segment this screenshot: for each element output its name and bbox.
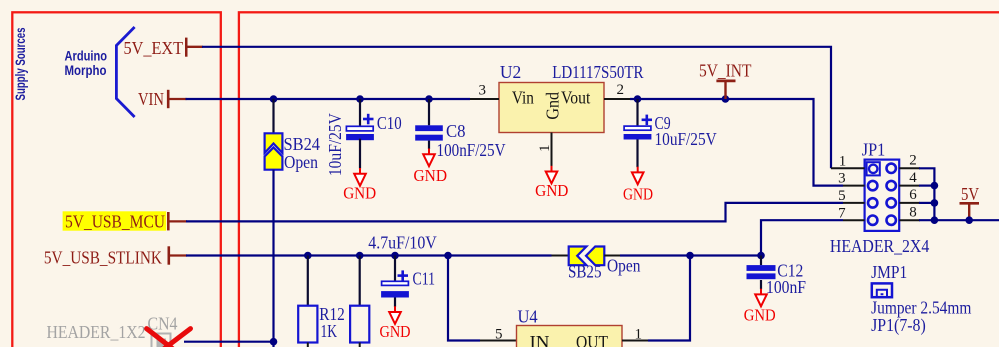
node R12 <box>304 252 312 260</box>
jumper JMP1 note <box>871 262 972 335</box>
ground U2 <box>535 166 568 200</box>
pin 5 U4 <box>480 327 517 343</box>
svg-text:C8: C8 <box>446 121 466 141</box>
pin 7 JP1 <box>838 205 865 221</box>
no-fit cross CN4 <box>144 329 193 347</box>
wire 5V_EXT rail <box>202 47 831 169</box>
node bus pin8 <box>931 216 939 224</box>
svg-text:LD1117S50TR: LD1117S50TR <box>552 62 644 82</box>
node VIN/C8 <box>425 95 433 103</box>
pin 6 JP1 <box>899 187 920 203</box>
sheet border main box <box>239 12 999 347</box>
svg-text:JP1: JP1 <box>862 140 886 160</box>
node CN4 junction <box>270 338 278 346</box>
node bus pin4 <box>931 182 939 190</box>
pin 1 JP1 <box>831 153 865 169</box>
node VIN/C10 <box>356 95 364 103</box>
title Supply Sources <box>12 27 28 100</box>
bracket <box>116 27 134 117</box>
svg-text:1: 1 <box>635 327 643 343</box>
ground C12 <box>744 289 776 325</box>
wire 5V rail <box>919 219 999 221</box>
wire JP1 right bus <box>919 168 934 220</box>
svg-text:SB24: SB24 <box>284 134 321 154</box>
svg-text:6: 6 <box>909 187 917 203</box>
node R13 <box>356 252 364 260</box>
svg-text:U4: U4 <box>518 307 538 327</box>
svg-text:GND: GND <box>535 181 568 200</box>
ground C9 <box>623 167 653 204</box>
node U4 out <box>686 252 694 260</box>
ground C10 <box>343 168 376 203</box>
regulator U2 <box>499 62 644 133</box>
pin 1 U2 <box>537 133 553 167</box>
svg-text:5V_USB_STLINK: 5V_USB_STLINK <box>44 248 162 268</box>
svg-text:4.7uF/10V: 4.7uF/10V <box>368 233 437 253</box>
svg-text:GND: GND <box>380 322 411 341</box>
wire 5V_USB_STLINK rail right <box>620 254 761 256</box>
svg-text:4: 4 <box>909 170 917 186</box>
svg-text:Open: Open <box>607 256 641 276</box>
port 5V_USB_STLINK <box>44 246 187 267</box>
svg-text:5V: 5V <box>961 184 979 204</box>
capacitor C8 <box>415 99 506 160</box>
annotation Arduino Morpho <box>65 48 108 79</box>
svg-text:OUT: OUT <box>576 332 608 347</box>
capacitor C9 <box>624 99 717 167</box>
resistor R13 <box>350 256 369 347</box>
svg-text:JP1(7-8): JP1(7-8) <box>871 315 926 335</box>
svg-text:HEADER_1X2: HEADER_1X2 <box>47 322 146 342</box>
pin 2 U2 <box>604 82 631 99</box>
svg-text:5V_INT: 5V_INT <box>699 60 752 80</box>
wire VIN rail <box>186 98 471 100</box>
svg-text:C10: C10 <box>377 113 402 133</box>
svg-text:Vout: Vout <box>561 88 590 108</box>
svg-text:10uF/25V: 10uF/25V <box>325 113 345 176</box>
connector CN4 <box>47 313 178 347</box>
wire to U4 IN <box>448 256 480 341</box>
pin 8 JP1 <box>899 204 920 220</box>
power 5V_INT <box>699 60 752 99</box>
svg-text:Open: Open <box>284 152 318 172</box>
svg-text:5V_USB_MCU: 5V_USB_MCU <box>65 212 165 232</box>
node C11 <box>391 252 399 260</box>
pin 3 U2 <box>470 83 499 100</box>
svg-text:Morpho: Morpho <box>65 62 107 78</box>
svg-text:5: 5 <box>495 327 503 343</box>
svg-text:2: 2 <box>909 153 917 169</box>
capacitor C10 <box>325 99 402 176</box>
svg-text:Vin: Vin <box>512 88 534 108</box>
svg-text:1: 1 <box>537 145 553 153</box>
svg-text:GND: GND <box>343 184 376 203</box>
pin 2 JP1 <box>899 153 920 169</box>
svg-text:5V_EXT: 5V_EXT <box>124 38 184 58</box>
wire SB24 top <box>272 99 274 134</box>
node 5V_INT <box>722 95 730 103</box>
pin 1 U4 <box>622 327 649 343</box>
pin 4 JP1 <box>899 170 920 186</box>
svg-text:3: 3 <box>479 83 487 99</box>
node C12 / JP1 pin7 <box>757 252 765 260</box>
svg-text:Supply Sources: Supply Sources <box>12 27 28 100</box>
svg-text:C11: C11 <box>413 269 436 289</box>
svg-text:GND: GND <box>414 166 448 185</box>
pin SB25 right <box>604 255 621 257</box>
svg-text:10uF/25V: 10uF/25V <box>655 129 718 149</box>
svg-text:HEADER_2X4: HEADER_2X4 <box>830 236 930 256</box>
svg-text:3: 3 <box>838 171 846 187</box>
pin 5 JP1 <box>838 188 865 204</box>
svg-text:1K: 1K <box>321 321 338 341</box>
node C9 <box>634 95 642 103</box>
wire SB24 bottom long vertical <box>272 170 274 347</box>
svg-text:IN: IN <box>530 332 550 347</box>
ground C8 <box>414 149 448 186</box>
svg-text:U2: U2 <box>500 62 521 82</box>
svg-text:7: 7 <box>838 205 846 221</box>
wire JP1 pin7 riser <box>761 220 843 255</box>
wire CN4 <box>184 341 274 343</box>
svg-text:1: 1 <box>839 153 847 169</box>
svg-text:VIN: VIN <box>138 89 164 109</box>
svg-text:GND: GND <box>623 185 653 204</box>
svg-text:100nF/25V: 100nF/25V <box>437 140 506 160</box>
svg-text:8: 8 <box>909 204 917 220</box>
node VIN/SB24 <box>270 95 278 103</box>
node bus pin6 <box>931 199 939 207</box>
ground C11 <box>380 306 411 341</box>
port VIN <box>138 89 187 109</box>
node U4 in riser <box>444 252 452 260</box>
solder bridge SB24 <box>265 133 321 172</box>
pin 3 JP1 <box>838 171 865 187</box>
svg-text:100nF: 100nF <box>766 277 806 297</box>
wire U4 OUT riser <box>648 256 690 341</box>
header JP1 <box>830 140 930 256</box>
svg-text:JMP1: JMP1 <box>871 262 907 282</box>
capacitor C11 <box>368 233 437 307</box>
port 5V_EXT <box>124 38 203 58</box>
pin SB25 left <box>552 255 570 257</box>
svg-text:GND: GND <box>744 306 776 325</box>
wire 5V_USB_MCU rail <box>186 203 843 222</box>
svg-text:SB25: SB25 <box>568 262 602 282</box>
sheet border left box <box>12 12 221 347</box>
wire 5V_USB_STLINK rail left <box>186 254 552 256</box>
power 5V <box>960 184 980 224</box>
svg-text:5: 5 <box>838 188 846 204</box>
regulator U4 <box>517 307 623 347</box>
svg-text:2: 2 <box>617 82 625 98</box>
resistor R12 <box>298 256 345 347</box>
svg-text:Gnd: Gnd <box>542 92 562 120</box>
solder bridge SB25 <box>568 247 641 282</box>
capacitor C12 <box>747 256 807 298</box>
wire U2 out rail <box>630 99 843 186</box>
port 5V_USB_MCU <box>63 211 187 231</box>
